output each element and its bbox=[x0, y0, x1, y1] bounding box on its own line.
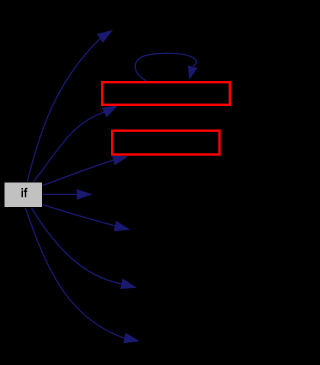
label "if" bbox=[22, 188, 28, 198]
node2 (red box, hidden label) bbox=[112, 131, 219, 155]
edge if->node1 bbox=[34, 105, 119, 181]
edge self-loop on node1 bbox=[135, 53, 197, 81]
edge if->node2 bbox=[43, 155, 129, 186]
edge if->bottom-mid bbox=[32, 208, 137, 289]
edge if->lower-right bbox=[43, 205, 131, 232]
node1 (red box, hidden label) bbox=[102, 82, 230, 105]
node if (gray box) bbox=[5, 183, 43, 208]
edge if->bottom bbox=[26, 208, 140, 343]
edge if->right (short horizontal) bbox=[43, 189, 92, 200]
edge if->top (long left curve) bbox=[28, 30, 114, 181]
